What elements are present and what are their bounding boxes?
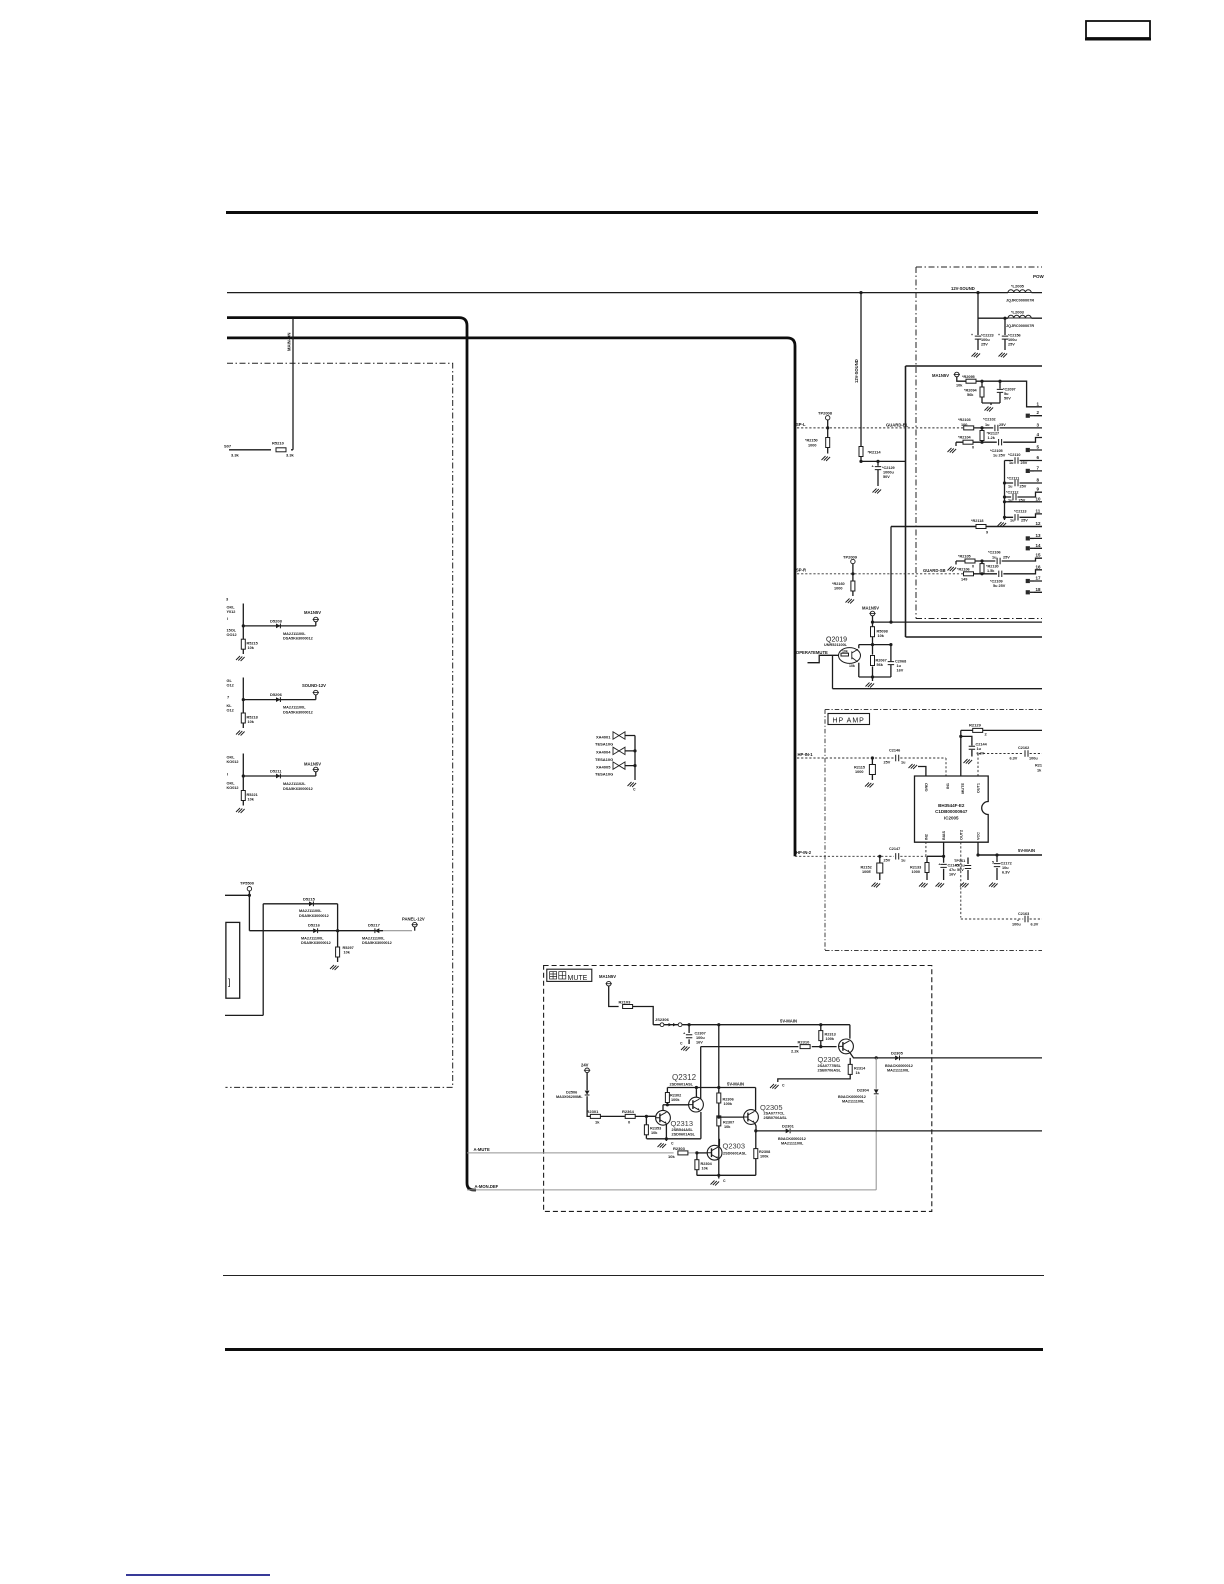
- svg-text:100E: 100E: [862, 870, 871, 874]
- svg-text:A-MON.DEF: A-MON.DEF: [475, 1184, 499, 1189]
- svg-text:Q2312: Q2312: [672, 1073, 697, 1082]
- svg-text:3.3k: 3.3k: [231, 453, 240, 458]
- svg-text:10k: 10k: [344, 951, 351, 955]
- svg-text:5: 5: [992, 861, 994, 865]
- svg-text:D5216: D5216: [308, 923, 321, 928]
- svg-text:KL: KL: [227, 704, 233, 708]
- svg-text:10: 10: [1036, 496, 1042, 501]
- svg-text:*R2094: *R2094: [964, 389, 978, 393]
- svg-text:25V: 25V: [1020, 485, 1027, 489]
- svg-text:10k: 10k: [724, 1125, 731, 1129]
- svg-text:OKL: OKL: [227, 782, 236, 786]
- svg-text:JQJRC000007R: JQJRC000007R: [1006, 299, 1034, 303]
- svg-text:1u: 1u: [992, 555, 997, 559]
- svg-text:5V-MAIN: 5V-MAIN: [1018, 848, 1035, 853]
- svg-text:+: +: [938, 863, 940, 867]
- svg-text:18: 18: [1036, 587, 1042, 592]
- svg-text:Q2313: Q2313: [671, 1119, 694, 1128]
- svg-text:25V: 25V: [1003, 555, 1010, 559]
- svg-text:1000: 1000: [912, 870, 920, 874]
- svg-text:10u: 10u: [1002, 866, 1009, 870]
- svg-text:*C2097: *C2097: [1003, 388, 1016, 392]
- svg-text:2SB0706ASL: 2SB0706ASL: [764, 1116, 788, 1120]
- svg-text:SOUND-12V: SOUND-12V: [302, 683, 326, 688]
- svg-text:*R2160: *R2160: [832, 582, 845, 586]
- svg-text:TP5500: TP5500: [240, 881, 255, 886]
- svg-text:25V: 25V: [999, 423, 1006, 427]
- svg-text:TESA10G: TESA10G: [595, 757, 613, 762]
- svg-text:25V: 25V: [884, 859, 891, 863]
- svg-text:IC2005: IC2005: [944, 816, 959, 821]
- svg-text:+: +: [1017, 919, 1019, 923]
- svg-text:12V-SOUND: 12V-SOUND: [854, 359, 859, 383]
- svg-text:1000: 1000: [855, 770, 863, 774]
- svg-text:5u 25V: 5u 25V: [993, 584, 1006, 588]
- svg-text:SP-L: SP-L: [796, 422, 806, 427]
- svg-text:1.5k: 1.5k: [987, 569, 995, 573]
- svg-text:R2133: R2133: [910, 866, 921, 870]
- svg-text:50V: 50V: [1004, 397, 1011, 401]
- svg-text:PANEL-12V: PANEL-12V: [402, 917, 425, 922]
- svg-text:*R2127: *R2127: [987, 432, 1000, 436]
- svg-text:25V: 25V: [981, 343, 988, 347]
- svg-text:R2301: R2301: [587, 1109, 600, 1114]
- svg-text:D5215: D5215: [303, 897, 316, 902]
- svg-text:13: 13: [1036, 533, 1042, 538]
- svg-text:16V: 16V: [949, 873, 956, 877]
- svg-text:MA2J11102L: MA2J11102L: [283, 782, 306, 786]
- svg-text:GUARD-SB: GUARD-SB: [923, 568, 946, 573]
- svg-text:2SA0777CL: 2SA0777CL: [764, 1112, 786, 1116]
- svg-text:MA1N5V: MA1N5V: [932, 373, 949, 378]
- svg-text:JS2306: JS2306: [655, 1017, 670, 1022]
- svg-text:MA3X06200ML: MA3X06200ML: [556, 1095, 583, 1099]
- svg-text:*L2005: *L2005: [1011, 284, 1025, 289]
- svg-text:HP-IN-2: HP-IN-2: [796, 850, 812, 855]
- svg-text:MA2111100L: MA2111100L: [842, 1100, 865, 1104]
- svg-text:D2301: D2301: [782, 1123, 795, 1128]
- svg-text:MA2111100L: MA2111100L: [781, 1141, 804, 1145]
- svg-text:R2152: R2152: [861, 866, 872, 870]
- svg-text:*R2105: *R2105: [958, 555, 971, 559]
- svg-text:0.01u: 0.01u: [955, 864, 965, 868]
- svg-text:MUTE: MUTE: [568, 975, 588, 982]
- svg-text:3.3k: 3.3k: [286, 453, 295, 458]
- svg-text:R2314: R2314: [854, 1067, 866, 1071]
- svg-text:1u 25V: 1u 25V: [993, 454, 1006, 458]
- svg-text:VCC: VCC: [977, 832, 981, 840]
- svg-text:2SB544ASL: 2SB544ASL: [672, 1128, 694, 1132]
- svg-text:B0ACK6000012: B0ACK6000012: [885, 1064, 913, 1068]
- svg-text:100k: 100k: [826, 1037, 835, 1041]
- svg-text:24V: 24V: [581, 1063, 589, 1068]
- svg-text:25V: 25V: [1021, 518, 1028, 522]
- svg-text:2SD0601ASL: 2SD0601ASL: [723, 1152, 747, 1156]
- svg-text:2SD0601ASL: 2SD0601ASL: [672, 1133, 696, 1137]
- svg-text:1u: 1u: [977, 747, 982, 751]
- svg-text:R5221: R5221: [247, 793, 258, 797]
- svg-text:I: I: [227, 617, 228, 621]
- svg-text:MA2J11100L: MA2J11100L: [362, 936, 385, 940]
- svg-text:100k: 100k: [724, 1102, 733, 1106]
- svg-text:*C2110: *C2110: [1008, 453, 1020, 457]
- svg-text:Y012: Y012: [227, 610, 236, 614]
- svg-text:DSA5K63000012: DSA5K63000012: [283, 710, 313, 714]
- svg-text:XA4001: XA4001: [596, 734, 611, 739]
- svg-text:25V: 25V: [1008, 343, 1015, 347]
- svg-text:*C2106: *C2106: [988, 551, 1001, 555]
- svg-text:25V: 25V: [1019, 499, 1026, 503]
- svg-text:Q2306: Q2306: [818, 1055, 841, 1064]
- svg-text:OKL: OKL: [227, 756, 236, 760]
- svg-text:R2304: R2304: [701, 1162, 713, 1166]
- svg-text:Q2305: Q2305: [760, 1103, 783, 1112]
- svg-text:R2306: R2306: [723, 1098, 734, 1102]
- svg-text:1u: 1u: [897, 664, 902, 668]
- svg-text:R5218: R5218: [247, 716, 258, 720]
- svg-text:R2115: R2115: [854, 766, 865, 770]
- svg-text:R5215: R5215: [247, 642, 258, 646]
- svg-text:10k: 10k: [248, 720, 255, 724]
- svg-text:DSA5K63000012: DSA5K63000012: [362, 941, 392, 945]
- svg-text:*R2118: *R2118: [971, 519, 983, 523]
- svg-text:16V: 16V: [696, 1041, 703, 1045]
- svg-text:O12: O12: [227, 709, 234, 713]
- svg-text:TP2008: TP2008: [818, 411, 833, 416]
- svg-text:0: 0: [972, 565, 974, 569]
- svg-text:HP AMP: HP AMP: [833, 718, 865, 725]
- svg-text:6.3V: 6.3V: [1010, 757, 1018, 761]
- svg-text:DSA5K63000012: DSA5K63000012: [301, 941, 331, 945]
- svg-text:I: I: [227, 772, 228, 777]
- svg-text:*R2103: *R2103: [958, 418, 971, 422]
- svg-text:TP2009: TP2009: [843, 555, 858, 560]
- svg-text:MA1N5V: MA1N5V: [599, 974, 616, 979]
- svg-text:D5208: D5208: [270, 619, 283, 624]
- svg-text:KO012: KO012: [227, 760, 239, 764]
- svg-text:149: 149: [961, 578, 967, 582]
- svg-text:1u: 1u: [1010, 518, 1015, 522]
- svg-text:S07: S07: [224, 444, 232, 449]
- svg-text:6.3V: 6.3V: [1002, 871, 1010, 875]
- svg-text:BIAS: BIAS: [942, 830, 946, 840]
- svg-text:*C2111: *C2111: [1007, 477, 1019, 481]
- svg-text:C2144: C2144: [976, 743, 988, 747]
- svg-text:50V: 50V: [883, 475, 890, 479]
- svg-text:2SA0777BSL: 2SA0777BSL: [818, 1064, 842, 1068]
- svg-text:]: ]: [228, 977, 231, 987]
- svg-text:XA4004: XA4004: [596, 750, 611, 755]
- svg-text:TESA10G: TESA10G: [595, 742, 613, 747]
- svg-text:SP-R: SP-R: [796, 568, 806, 573]
- svg-text:17: 17: [1036, 576, 1042, 581]
- svg-text:C2172: C2172: [1001, 862, 1012, 866]
- svg-text:A-MUTE: A-MUTE: [474, 1147, 490, 1152]
- svg-text:47u: 47u: [949, 868, 956, 872]
- svg-text:GND: GND: [925, 783, 929, 792]
- svg-text:10k: 10k: [702, 1167, 709, 1171]
- svg-text:1u: 1u: [901, 760, 906, 764]
- svg-text:MA2111100L: MA2111100L: [887, 1068, 910, 1072]
- svg-text:*C2156: *C2156: [1008, 334, 1021, 338]
- svg-text:R2067: R2067: [876, 659, 887, 663]
- svg-text:100k: 100k: [671, 1098, 680, 1102]
- svg-text:100u: 100u: [1008, 338, 1017, 342]
- svg-text:MA2J11100L: MA2J11100L: [301, 936, 324, 940]
- svg-text:DSA5K63000012: DSA5K63000012: [283, 787, 313, 791]
- svg-text:MA1N5V: MA1N5V: [304, 762, 321, 767]
- svg-text:*R2150: *R2150: [805, 439, 818, 443]
- svg-text:2SD0601ASL: 2SD0601ASL: [670, 1083, 694, 1087]
- svg-text:*C2223: *C2223: [981, 334, 994, 338]
- svg-text:MAIN-ON: MAIN-ON: [287, 333, 292, 351]
- svg-text:HP-IN-1: HP-IN-1: [798, 752, 814, 757]
- svg-text:16V: 16V: [897, 669, 904, 673]
- svg-text:MA1N5V: MA1N5V: [304, 610, 321, 615]
- svg-text:6.3V: 6.3V: [1031, 923, 1039, 927]
- svg-text:R2364: R2364: [622, 1109, 635, 1114]
- svg-text:12: 12: [1036, 521, 1042, 526]
- svg-text:UNR521100L: UNR521100L: [824, 643, 848, 647]
- svg-text:2SB0706ASL: 2SB0706ASL: [818, 1069, 842, 1073]
- svg-text:10k: 10k: [651, 1131, 658, 1135]
- svg-text:R2313: R2313: [825, 1033, 836, 1037]
- svg-text:1u: 1u: [1009, 461, 1014, 465]
- svg-text:100u: 100u: [1029, 757, 1038, 761]
- svg-text:MUTE: MUTE: [961, 783, 965, 794]
- svg-text:15OL: 15OL: [227, 629, 237, 633]
- svg-text:100u: 100u: [1012, 923, 1021, 927]
- svg-text:*C2105: *C2105: [990, 449, 1003, 453]
- svg-text:25V: 25V: [1021, 461, 1028, 465]
- svg-text:25V: 25V: [884, 760, 891, 764]
- svg-text:14: 14: [1036, 543, 1042, 548]
- svg-text:2.2k: 2.2k: [791, 1049, 800, 1054]
- svg-text:5V-MAIN: 5V-MAIN: [780, 1019, 797, 1024]
- svg-text:MA2J11100L: MA2J11100L: [299, 909, 322, 913]
- svg-text:9: 9: [986, 531, 988, 535]
- svg-text:R2129: R2129: [969, 723, 982, 728]
- svg-text:MA2J11100L: MA2J11100L: [283, 706, 306, 710]
- svg-text:100u: 100u: [696, 1036, 705, 1040]
- svg-text:TESA10G: TESA10G: [595, 772, 613, 777]
- svg-text:OUT1: OUT1: [977, 783, 981, 793]
- svg-text:R2303: R2303: [673, 1146, 686, 1151]
- svg-text:*R2095: *R2095: [962, 375, 975, 379]
- svg-text:*R2114: *R2114: [868, 450, 882, 455]
- svg-text:D5217: D5217: [368, 923, 381, 928]
- svg-text:1000u: 1000u: [883, 471, 894, 475]
- svg-text:JQJRC000007R: JQJRC000007R: [1006, 324, 1034, 328]
- svg-text:1.2k: 1.2k: [988, 436, 996, 440]
- svg-text:10k: 10k: [248, 798, 255, 802]
- svg-text:D2506: D2506: [566, 1091, 577, 1095]
- svg-text:*R2104: *R2104: [958, 436, 972, 440]
- svg-text:OUT2: OUT2: [959, 830, 963, 840]
- svg-text:O12: O12: [227, 684, 234, 688]
- svg-text:C2068: C2068: [895, 660, 906, 664]
- svg-text:B0ACK6000212: B0ACK6000212: [778, 1137, 806, 1141]
- svg-text:1000: 1000: [834, 587, 842, 591]
- svg-text:0: 0: [972, 446, 974, 450]
- svg-text:XA4005: XA4005: [596, 764, 611, 769]
- svg-text:56k: 56k: [877, 663, 884, 667]
- svg-text:IN1: IN1: [946, 783, 950, 789]
- svg-text:TP161: TP161: [954, 859, 965, 863]
- svg-text:DSA5K63000012: DSA5K63000012: [299, 914, 329, 918]
- svg-text:OKL: OKL: [227, 606, 236, 610]
- svg-text:+: +: [998, 333, 1000, 337]
- svg-text:D5211: D5211: [270, 769, 282, 774]
- svg-text:*R2130: *R2130: [986, 565, 999, 569]
- svg-text:R2302: R2302: [670, 1094, 681, 1098]
- svg-text:R5210: R5210: [272, 441, 285, 446]
- svg-text:KO012: KO012: [227, 786, 239, 790]
- svg-text:10k: 10k: [849, 664, 855, 668]
- svg-text:*C2113: *C2113: [1014, 510, 1026, 514]
- svg-text:56k: 56k: [967, 393, 974, 397]
- svg-text:11: 11: [1036, 508, 1041, 513]
- svg-text:+: +: [971, 333, 973, 337]
- svg-text:B0ACK6000012: B0ACK6000012: [838, 1095, 866, 1099]
- svg-text:15: 15: [1036, 553, 1042, 558]
- svg-text:10k: 10k: [878, 634, 885, 638]
- svg-text:BH3544F-E2: BH3544F-E2: [938, 803, 965, 808]
- svg-text:D2305: D2305: [891, 1051, 904, 1056]
- svg-text:R2353: R2353: [650, 1127, 661, 1131]
- svg-text:16: 16: [1036, 564, 1042, 569]
- svg-text:*C2109: *C2109: [990, 580, 1003, 584]
- svg-text:100k: 100k: [760, 1155, 769, 1159]
- svg-text:*R2106: *R2106: [957, 568, 970, 572]
- svg-text:*C2102: *C2102: [983, 418, 996, 422]
- svg-text:5u: 5u: [1004, 392, 1009, 396]
- svg-text:C2146: C2146: [889, 749, 900, 753]
- svg-text:R5098: R5098: [877, 630, 888, 634]
- svg-text:1u: 1u: [985, 423, 990, 427]
- svg-text:D2304: D2304: [857, 1088, 870, 1093]
- svg-text:R5297: R5297: [343, 946, 354, 950]
- svg-text:10k: 10k: [668, 1154, 675, 1159]
- svg-text:C2307: C2307: [695, 1032, 706, 1036]
- svg-text:1000: 1000: [808, 444, 816, 448]
- svg-text:R2307: R2307: [723, 1121, 734, 1125]
- svg-text:OPERATEMUTE: OPERATEMUTE: [796, 650, 828, 655]
- svg-text:*C2112: *C2112: [1006, 491, 1018, 495]
- svg-text:5V-MAIN: 5V-MAIN: [727, 1081, 744, 1086]
- svg-text:MA1N5V: MA1N5V: [862, 606, 879, 611]
- svg-text:D5206: D5206: [270, 692, 283, 697]
- svg-text:GL: GL: [227, 679, 233, 683]
- svg-text:1u: 1u: [1008, 499, 1013, 503]
- svg-text:1u: 1u: [901, 859, 906, 863]
- svg-text:1u: 1u: [1008, 485, 1013, 489]
- svg-text:R21: R21: [1035, 764, 1042, 768]
- svg-text:OO12: OO12: [227, 633, 237, 637]
- svg-text:1k: 1k: [595, 1120, 600, 1125]
- svg-text:*L2003: *L2003: [1011, 310, 1025, 315]
- svg-text:10k: 10k: [248, 646, 255, 650]
- svg-text:GUARD-BL: GUARD-BL: [886, 423, 909, 428]
- svg-text:IN2: IN2: [925, 834, 929, 840]
- svg-text:R2308: R2308: [759, 1150, 770, 1154]
- svg-text:10k: 10k: [842, 649, 848, 653]
- svg-text:C2163: C2163: [1018, 912, 1029, 916]
- svg-text:MA2J11100L: MA2J11100L: [283, 632, 306, 636]
- svg-text:C2147: C2147: [889, 847, 900, 851]
- svg-text:Q2303: Q2303: [723, 1142, 746, 1151]
- svg-text:R2103: R2103: [619, 1000, 632, 1005]
- svg-text:100u: 100u: [981, 338, 990, 342]
- svg-text:R2310: R2310: [798, 1040, 811, 1045]
- svg-text:POW: POW: [1033, 274, 1045, 279]
- svg-text:C1DB00000947: C1DB00000947: [935, 809, 968, 814]
- svg-text:C2162: C2162: [1018, 746, 1029, 750]
- svg-text:DSA5K63000012: DSA5K63000012: [283, 637, 313, 641]
- svg-text:10k: 10k: [956, 384, 963, 388]
- svg-text:12V-SOUND: 12V-SOUND: [951, 286, 975, 291]
- svg-text:100: 100: [961, 423, 967, 427]
- svg-text:*C2129: *C2129: [882, 466, 895, 470]
